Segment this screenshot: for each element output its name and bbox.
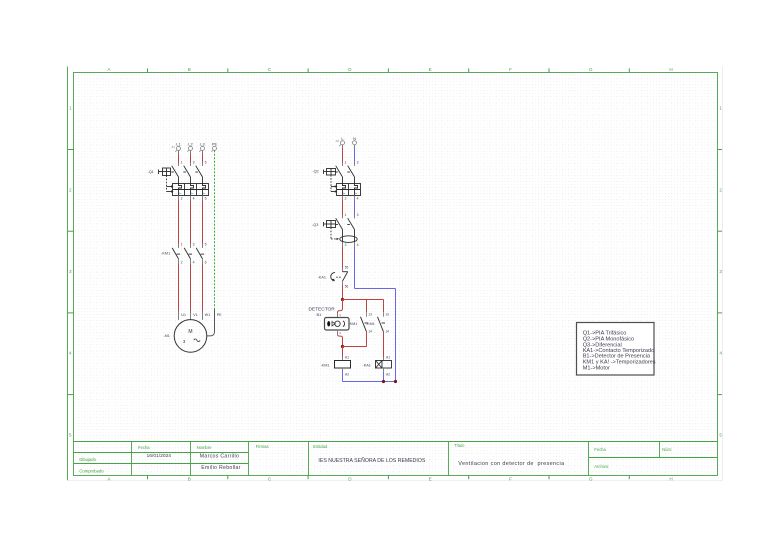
wire N riser bbox=[395, 289, 397, 382]
svg-text:3: 3 bbox=[69, 269, 72, 274]
svg-text:I>: I> bbox=[355, 191, 358, 195]
svg-text:I>: I> bbox=[191, 191, 194, 195]
svg-text:13: 13 bbox=[385, 313, 389, 317]
wire Q2-Q3 (N) bbox=[354, 196, 356, 219]
Q2 pin numbers 2 4 bbox=[345, 197, 359, 201]
coil KM1 pin A2 bbox=[345, 372, 349, 376]
svg-text:2: 2 bbox=[719, 187, 722, 192]
circuit breaker Q2 bbox=[324, 166, 361, 196]
detector pin 1 bbox=[339, 313, 341, 317]
svg-text:1: 1 bbox=[345, 213, 347, 217]
coil KM1 bbox=[335, 361, 351, 369]
detector label DETECTOR B1 bbox=[308, 307, 335, 318]
svg-text:PE: PE bbox=[212, 141, 218, 146]
svg-text:F: F bbox=[509, 67, 512, 72]
svg-text:5: 5 bbox=[205, 243, 207, 247]
KM1 pin numbers 1 3 5 bbox=[181, 243, 207, 247]
svg-text:A1: A1 bbox=[386, 355, 390, 359]
coil KA1 pin A2 bbox=[386, 372, 390, 376]
svg-text:6: 6 bbox=[205, 260, 207, 264]
svg-text:-Q2: -Q2 bbox=[312, 169, 318, 173]
svg-text:V1: V1 bbox=[193, 313, 197, 317]
svg-text:U1: U1 bbox=[181, 313, 186, 317]
node N corner bbox=[394, 380, 397, 383]
wire bbox=[190, 259, 192, 320]
svg-text:B1: B1 bbox=[316, 312, 322, 317]
wire Q3-KA1 contact (L) bbox=[342, 242, 344, 271]
wire bbox=[178, 196, 180, 248]
coil labels bbox=[320, 363, 370, 367]
wire bbox=[178, 150, 180, 165]
svg-text:3: 3 bbox=[357, 213, 359, 217]
svg-text:5: 5 bbox=[719, 432, 722, 437]
wire N bottom run bbox=[343, 381, 396, 383]
svg-text:-Q1: -Q1 bbox=[147, 170, 153, 174]
svg-text:I>: I> bbox=[343, 191, 346, 195]
coil KA1 pin A1 bbox=[386, 355, 390, 359]
svg-text:A2: A2 bbox=[345, 372, 349, 376]
KM1 pin numbers 2 4 6 bbox=[181, 260, 207, 264]
wire bbox=[202, 259, 204, 320]
wire node2 to KM1 coil bbox=[342, 347, 344, 361]
svg-text:H: H bbox=[669, 67, 672, 72]
title block bbox=[74, 442, 718, 476]
svg-text:2: 2 bbox=[181, 260, 183, 264]
svg-text:-Q3: -Q3 bbox=[312, 223, 318, 227]
svg-text:Entidad: Entidad bbox=[313, 444, 328, 449]
Q1 label bbox=[147, 170, 153, 174]
svg-text:6: 6 bbox=[205, 196, 207, 200]
PE conductor (green dashed) bbox=[214, 150, 216, 309]
svg-text:Dibujado: Dibujado bbox=[79, 457, 96, 462]
svg-text:1: 1 bbox=[345, 161, 347, 165]
svg-text:Q2->PIA Monofásico: Q2->PIA Monofásico bbox=[583, 337, 634, 343]
svg-text:B: B bbox=[188, 67, 191, 72]
svg-text:N: N bbox=[353, 136, 356, 141]
PE wire into motor bbox=[207, 310, 215, 336]
coil KM1 pin A1 bbox=[345, 355, 349, 359]
svg-text:2: 2 bbox=[345, 197, 347, 201]
svg-text:Emilio Rebollar: Emilio Rebollar bbox=[201, 465, 240, 471]
aux pins 14 bbox=[368, 329, 389, 333]
svg-text:I>: I> bbox=[203, 191, 206, 195]
node KA1-A2/N bbox=[382, 380, 385, 383]
motor terminal labels U1 V1 W1 PE bbox=[181, 313, 222, 317]
svg-text:4: 4 bbox=[357, 197, 359, 201]
svg-text:M: M bbox=[188, 329, 192, 335]
Q3 pin numbers 1 3 bbox=[345, 213, 359, 217]
wire bbox=[190, 150, 192, 165]
Q3 label bbox=[312, 223, 318, 227]
svg-text:-KM1: -KM1 bbox=[366, 322, 375, 326]
aux pins 13 bbox=[368, 313, 389, 317]
coil KA1 (timer) bbox=[376, 361, 392, 369]
svg-text:F: F bbox=[509, 476, 512, 481]
terminal L3 bbox=[199, 141, 205, 151]
svg-text:4: 4 bbox=[193, 260, 195, 264]
svg-text:W1: W1 bbox=[205, 313, 210, 317]
svg-text:E: E bbox=[429, 476, 432, 481]
svg-text:-KM1: -KM1 bbox=[320, 363, 329, 367]
KA1 pin 55 bbox=[345, 266, 349, 270]
terminal strip label X1 bbox=[171, 145, 176, 149]
svg-text:Título: Título bbox=[454, 443, 465, 448]
svg-text:1: 1 bbox=[719, 106, 722, 111]
KA1 pin 56 bbox=[345, 284, 349, 288]
Q1 I> marks bbox=[179, 191, 206, 195]
Q1 pin numbers 1 3 5 bbox=[181, 161, 207, 165]
svg-text:A2: A2 bbox=[386, 372, 390, 376]
svg-text:L1: L1 bbox=[176, 141, 181, 146]
wire detector-node2 bbox=[338, 330, 343, 347]
wire KA1 A2 to N bbox=[383, 368, 385, 382]
detector pin 2 bbox=[339, 331, 341, 335]
svg-text:4: 4 bbox=[357, 243, 359, 247]
svg-text:1: 1 bbox=[181, 243, 183, 247]
aux contact labels bbox=[348, 322, 375, 326]
svg-text:4: 4 bbox=[69, 351, 72, 356]
wire bbox=[202, 150, 204, 165]
wire aux2 to KA1 coil bbox=[383, 332, 385, 361]
svg-text:1: 1 bbox=[181, 161, 183, 165]
Q1 pin numbers 2 4 6 bbox=[181, 196, 207, 200]
wire bbox=[178, 259, 180, 320]
Q2 pin numbers 1 3 bbox=[345, 161, 359, 165]
terminal L1 bbox=[175, 141, 181, 151]
svg-text:DETECTOR: DETECTOR bbox=[308, 307, 335, 313]
wire N bbox=[354, 145, 356, 166]
svg-text:Archivo:: Archivo: bbox=[594, 464, 609, 469]
node junction (detector feed) bbox=[341, 298, 344, 301]
M1 label bbox=[163, 334, 170, 338]
wire N down from Q3 bbox=[354, 242, 356, 288]
svg-text:3: 3 bbox=[719, 269, 722, 274]
wire Q2-Q3 (L) bbox=[342, 196, 344, 219]
svg-text:5: 5 bbox=[205, 161, 207, 165]
wire KM1 A2 to N bbox=[342, 368, 344, 382]
aux contact KM1 13/14 (self-hold) bbox=[361, 312, 369, 332]
svg-text:14: 14 bbox=[368, 329, 372, 333]
svg-text:Firmas: Firmas bbox=[256, 444, 269, 449]
wire N across bbox=[355, 288, 396, 290]
KM1 label (power) bbox=[161, 252, 170, 256]
svg-text:-KM1: -KM1 bbox=[161, 252, 170, 256]
wire node2 to aux1 bbox=[343, 346, 367, 348]
Q3 pin numbers 2 4 bbox=[345, 243, 359, 247]
terminal L2 bbox=[187, 141, 193, 151]
svg-text:-M1: -M1 bbox=[163, 334, 170, 338]
svg-text:Marcos Carrillo: Marcos Carrillo bbox=[200, 453, 239, 459]
svg-text:5: 5 bbox=[69, 432, 72, 437]
svg-text:G: G bbox=[589, 67, 593, 72]
wire L bbox=[342, 145, 344, 166]
svg-text:13: 13 bbox=[368, 313, 372, 317]
wire bbox=[190, 196, 192, 248]
terminal N bbox=[353, 136, 357, 145]
wire junction-detector bbox=[338, 300, 343, 318]
svg-text:Comprobado: Comprobado bbox=[79, 469, 104, 474]
svg-text:L2: L2 bbox=[188, 141, 193, 146]
svg-text:2: 2 bbox=[69, 187, 72, 192]
residual current device Q3 bbox=[324, 218, 358, 242]
svg-text:A1: A1 bbox=[345, 355, 349, 359]
svg-text:Ventilacion con detector de p: Ventilacion con detector de presencia bbox=[458, 461, 565, 467]
svg-text:1: 1 bbox=[69, 106, 72, 111]
circuit breaker Q1 bbox=[159, 166, 209, 196]
svg-text:Q1->PIA Trifásico: Q1->PIA Trifásico bbox=[583, 330, 627, 336]
svg-text:16/01/2024: 16/01/2024 bbox=[147, 453, 172, 459]
svg-text:2: 2 bbox=[181, 196, 183, 200]
svg-text:-KA1: -KA1 bbox=[318, 276, 326, 280]
terminal strip label X2 bbox=[335, 139, 340, 143]
svg-text:Nombre: Nombre bbox=[197, 445, 213, 450]
svg-text:-X1: -X1 bbox=[171, 145, 176, 149]
svg-text:IES NUESTRA SEÑORA DE LOS REME: IES NUESTRA SEÑORA DE LOS REMEDIOS bbox=[318, 457, 425, 464]
svg-text:4: 4 bbox=[719, 351, 722, 356]
svg-text:E: E bbox=[429, 67, 432, 72]
aux contact KM1 13/14 (to KA1 coil) bbox=[378, 312, 386, 332]
svg-text:G: G bbox=[589, 476, 593, 481]
svg-text:B: B bbox=[188, 476, 191, 481]
svg-text:H: H bbox=[669, 476, 672, 481]
svg-text:PE: PE bbox=[217, 313, 222, 317]
svg-text:Fecha: Fecha bbox=[594, 447, 606, 452]
wire aux1 to node2 bbox=[366, 332, 368, 347]
svg-text:Núm:: Núm: bbox=[662, 447, 672, 452]
terminal PE bbox=[211, 141, 217, 151]
svg-text:14: 14 bbox=[385, 329, 389, 333]
wire KA1-junction bbox=[342, 281, 344, 299]
svg-text:3: 3 bbox=[193, 243, 195, 247]
Q2 label bbox=[312, 169, 318, 173]
svg-text:I>: I> bbox=[179, 191, 182, 195]
wire bbox=[202, 196, 204, 248]
svg-text:4: 4 bbox=[193, 196, 195, 200]
svg-text:3: 3 bbox=[357, 161, 359, 165]
legend box bbox=[577, 323, 655, 376]
Q2 I> marks bbox=[343, 191, 358, 195]
node junction 2 bbox=[341, 345, 344, 348]
svg-text:56: 56 bbox=[345, 284, 349, 288]
svg-text:3: 3 bbox=[193, 161, 195, 165]
timed contact KA1 55/56 bbox=[331, 272, 348, 282]
contactor main contacts KM1 bbox=[172, 248, 204, 259]
svg-text:M1->Motor: M1->Motor bbox=[583, 365, 610, 371]
svg-text:B1->Detector de Presencia: B1->Detector de Presencia bbox=[583, 354, 651, 360]
motor M1 bbox=[174, 320, 207, 353]
terminal L bbox=[339, 136, 344, 146]
presence detector B1 bbox=[325, 318, 350, 331]
wire branch to aux contacts bbox=[343, 300, 384, 313]
svg-text:55: 55 bbox=[345, 266, 349, 270]
svg-text:L3: L3 bbox=[200, 141, 205, 146]
svg-text:Fecha: Fecha bbox=[138, 445, 150, 450]
svg-text:-KM1: -KM1 bbox=[348, 322, 357, 326]
svg-text:-KA1: -KA1 bbox=[362, 363, 370, 367]
KA1 contact label bbox=[318, 276, 326, 280]
svg-text:-X2: -X2 bbox=[335, 139, 340, 143]
svg-text:2: 2 bbox=[345, 243, 347, 247]
